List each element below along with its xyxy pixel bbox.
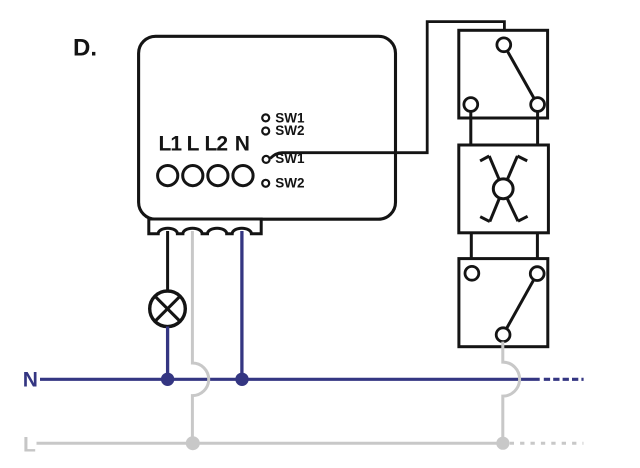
node: module L junction on L: [186, 436, 200, 450]
module U1 body: [139, 36, 396, 219]
switch S3 (two-way, bottom): [459, 259, 548, 347]
wire S2 to S3 (left): [470, 233, 473, 267]
wire S1 to S2 (right): [536, 111, 539, 145]
terminal circle L: [183, 166, 203, 186]
svg-text:SW2: SW2: [275, 175, 304, 190]
node: module N junction on N: [235, 373, 248, 386]
svg-text:L: L: [23, 434, 36, 457]
svg-text:L1: L1: [159, 132, 183, 155]
svg-text:N: N: [23, 369, 38, 392]
lamp E1: [150, 291, 186, 327]
wire N terminal to N line (blue): [240, 231, 243, 379]
L net line (gray, solid then dashed): [37, 442, 584, 445]
svg-text:D.: D.: [73, 35, 97, 62]
wire L1 terminal to lamp (black): [166, 231, 169, 291]
wire lamp to N line (blue): [166, 327, 169, 380]
wire L terminal to L line (gray, hop over N): [192, 231, 208, 443]
svg-text:L: L: [187, 132, 200, 155]
node: switch return junction on L: [496, 437, 509, 450]
N net line (blue, solid then dashed): [40, 378, 584, 381]
wire SW1 input to switch S1: [270, 22, 504, 159]
svg-text:N: N: [235, 132, 250, 155]
wire S1 to S2 (left): [469, 111, 472, 145]
svg-text:SW2: SW2: [275, 123, 304, 138]
indicator SW1 (group 1): [262, 110, 305, 125]
wire S2 to S3 (right): [536, 233, 539, 267]
terminal block under module: [149, 219, 261, 234]
switch S1 (two-way, top): [459, 30, 548, 118]
wire S3 return to L line (gray, hop over N): [503, 342, 520, 444]
node: lamp junction on N: [161, 373, 174, 386]
svg-text:L2: L2: [205, 132, 228, 155]
terminal circle L2: [208, 166, 228, 186]
input SW2 (group 2): [262, 175, 304, 190]
indicator SW2 (group 1): [262, 123, 304, 138]
terminal circle N: [233, 166, 253, 186]
terminal circle L1: [158, 166, 178, 186]
switch S2 (intermediate/cross): [459, 145, 549, 233]
input SW1 (group 2): [263, 151, 305, 166]
